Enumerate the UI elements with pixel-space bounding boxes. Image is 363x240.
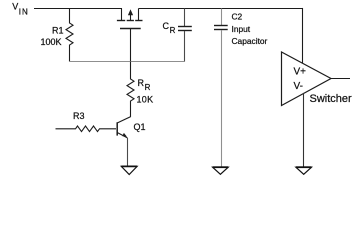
svg-text:C: C [163,21,170,31]
svg-text:V-: V- [294,81,303,92]
svg-text:V+: V+ [294,66,307,77]
svg-text:Input: Input [232,24,251,34]
transistor Q1 [116,122,118,135]
wire switcher output [331,78,350,80]
svg-text:R: R [170,26,176,35]
resistor R3 [56,126,117,132]
op-amp U1 switcher triangle [282,52,332,106]
wire node (R1 bottom to CR bottom) [70,61,185,63]
svg-text:R3: R3 [73,111,85,121]
transistor M1 (MOS pass device) [117,9,143,62]
wire top rail left segment [34,8,122,10]
resistor R1 [66,9,73,62]
ground under Q1 [121,166,137,174]
ground under C2 [213,167,229,174]
svg-text:10K: 10K [137,95,154,105]
label C2 Input Capacitor [232,12,268,47]
wire V+ feed from rail into switcher [302,8,304,64]
svg-text:Switcher: Switcher [310,93,353,105]
wire V- to ground [303,93,305,167]
svg-text:R1: R1 [52,25,64,35]
wire Q1 emitter diagonal [117,133,127,138]
capacitor CR [184,9,186,27]
wire top rail right segment [139,8,304,10]
svg-text:Q1: Q1 [134,122,146,132]
svg-text:100K: 100K [41,37,62,47]
resistor RR [127,62,134,117]
svg-text:R: R [145,83,151,92]
wire Q1 emitter to ground [127,138,129,167]
capacitor C2 [221,9,223,26]
svg-text:Capacitor: Capacitor [232,36,268,46]
svg-text:V: V [12,2,18,12]
ground under switcher [296,167,312,174]
node VIN label [12,2,29,17]
svg-text:C2: C2 [232,12,243,22]
wire Q1 collector diagonal [117,117,131,123]
svg-text:R: R [138,78,145,88]
svg-text:IN: IN [19,7,29,16]
